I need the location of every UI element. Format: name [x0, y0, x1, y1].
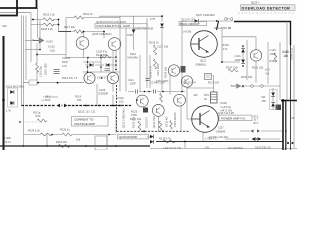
svg-text:0-103: 0-103 [46, 40, 53, 44]
svg-text:1.7k: 1.7k [6, 109, 12, 113]
svg-text:CN886(L): CN886(L) [195, 62, 206, 66]
svg-text:R126 1k: R126 1k [60, 128, 70, 132]
svg-text:NA140M: NA140M [128, 56, 138, 60]
svg-text:C+0.5 1k: C+0.5 1k [221, 105, 232, 109]
svg-text:R109 680: R109 680 [96, 53, 108, 57]
svg-text:D107 CN1140M: D107 CN1140M [196, 13, 214, 17]
svg-text:R113 47k 7.5: R113 47k 7.5 [62, 76, 78, 80]
svg-text:R103 2.2k: R103 2.2k [43, 13, 56, 17]
svg-text:R118 10k: R118 10k [56, 140, 68, 144]
svg-text:4.7k: 4.7k [62, 64, 68, 68]
svg-text:C125: C125 [283, 50, 290, 54]
svg-text:2SB546: 2SB546 [216, 130, 226, 134]
svg-text:180: 180 [77, 98, 82, 102]
svg-text:BIAS CIRCUIT: BIAS CIRCUIT [180, 22, 200, 26]
svg-text:0.75: 0.75 [150, 17, 156, 21]
svg-text:R125: R125 [131, 109, 138, 113]
svg-text:OVERLOAD DETECTOR: OVERLOAD DETECTOR [242, 7, 291, 11]
svg-text:C117: C117 [157, 44, 164, 48]
svg-text:2117: 2117 [218, 126, 224, 130]
svg-text:R124 2.2k: R124 2.2k [28, 129, 41, 133]
svg-text:L-18w 4.5: L-18w 4.5 [205, 136, 217, 140]
svg-text:7k7k: 7k7k [35, 114, 41, 118]
svg-text:DIFFERENTIAL AMP: DIFFERENTIAL AMP [97, 24, 131, 28]
svg-text:R135 1k: R135 1k [149, 41, 159, 45]
svg-text:18.3V DE CO: 18.3V DE CO [255, 146, 271, 150]
svg-text:Q115 MC2630: Q115 MC2630 [119, 135, 137, 139]
svg-text:CN103: CN103 [62, 56, 71, 60]
svg-text:17k8k: 17k8k [4, 136, 12, 140]
svg-text:L101 22µ: L101 22µ [39, 66, 43, 77]
svg-text:+10.7V (1.77): +10.7V (1.77) [163, 146, 181, 150]
svg-text:Q115, 117, 121: Q115, 117, 121 [78, 110, 96, 114]
svg-text:Q117,Ω,125: Q117,Ω,125 [218, 111, 234, 115]
svg-text:R132 4.7k: R132 4.7k [159, 136, 172, 140]
svg-text:10.7: 10.7 [254, 120, 259, 122]
svg-text:R107: R107 [62, 60, 69, 64]
svg-text:C121: C121 [235, 54, 242, 58]
svg-text:CURRENT TO: CURRENT TO [74, 118, 94, 122]
svg-text:D105 CN1140M: D105 CN1140M [135, 26, 153, 30]
svg-text:R143: R143 [223, 43, 230, 47]
svg-text:1Ω: 1Ω [204, 99, 207, 101]
svg-text:Q105 CN8150(L): Q105 CN8150(L) [92, 32, 112, 36]
svg-text:R117 12k: R117 12k [64, 25, 76, 29]
svg-text:100: 100 [119, 100, 124, 104]
svg-text:4.7k: 4.7k [223, 47, 229, 51]
svg-text:150: 150 [262, 99, 267, 103]
svg-text:R111a: R111a [33, 111, 41, 115]
svg-text:D112: D112 [130, 52, 137, 56]
svg-text:R101 1k: R101 1k [83, 12, 93, 16]
svg-text:R147 5.6k: R147 5.6k [226, 66, 239, 70]
svg-text:100P: 100P [235, 58, 241, 62]
svg-text:D101 MC140M: D101 MC140M [6, 85, 23, 89]
svg-text:R139 22k: R139 22k [164, 66, 168, 78]
svg-text:C119 AD150: C119 AD150 [173, 112, 177, 127]
svg-text:(+0.56): (+0.56) [183, 30, 191, 34]
svg-text:4700: 4700 [131, 113, 137, 117]
svg-text:+ 68.5: + 68.5 [43, 95, 51, 99]
svg-text:R5.5: R5.5 [254, 116, 260, 118]
svg-text:0105: 0105 [127, 33, 133, 37]
svg-text:2SC2275: 2SC2275 [145, 117, 149, 128]
svg-text:22k: 22k [164, 44, 169, 48]
svg-text:Q121 2SC: Q121 2SC [152, 116, 156, 128]
svg-text:R1,17: R1,17 [4, 140, 11, 144]
svg-text:C103 47µ: C103 47µ [96, 49, 108, 53]
svg-text:VOLTAGE AMP: VOLTAGE AMP [74, 122, 95, 126]
svg-text:Q115 CN8150(L): Q115 CN8150(L) [122, 108, 126, 128]
svg-text:C1 R40 2.2k: C1 R40 2.2k [150, 80, 165, 84]
svg-text:2W: 2W [194, 93, 198, 97]
svg-text:Q105,105,10%,10% 1W%: Q105,105,10%,10% 1W% [96, 20, 127, 24]
svg-text:Q111,R 127: Q111,R 127 [181, 17, 195, 21]
svg-text:C109: C109 [99, 88, 106, 92]
svg-text:C105 0.7: C105 0.7 [97, 76, 108, 80]
svg-text:0-125: 0-125 [48, 45, 55, 49]
svg-text:E110 18/5: E110 18/5 [44, 63, 48, 75]
svg-text:R153: R153 [270, 59, 277, 63]
svg-text:R151 150: R151 150 [252, 66, 264, 70]
svg-text:R141 4.7k: R141 4.7k [149, 65, 153, 78]
svg-text:100P: 100P [270, 52, 276, 56]
svg-text:120P: 120P [130, 82, 136, 86]
svg-text:W00-2V(R) BB: W00-2V(R) BB [214, 26, 231, 30]
svg-text:(24,3) 5,74: (24,3) 5,74 [183, 80, 196, 84]
svg-text:10µ: 10µ [284, 54, 289, 58]
svg-text:R131 4Ω: R131 4Ω [165, 117, 169, 127]
svg-text:C115 100P: C115 100P [156, 63, 160, 76]
svg-text:+B: +B [291, 116, 295, 120]
svg-text:C111: C111 [128, 78, 134, 82]
svg-text:A10: A10 [2, 24, 7, 28]
svg-text:+1.4: +1.4 [265, 68, 271, 72]
svg-text:Q123 +: Q123 + [251, 0, 260, 4]
svg-text:R129: R129 [221, 101, 228, 105]
svg-text:10Ω: 10Ω [50, 49, 55, 53]
svg-text:R171: R171 [204, 95, 210, 97]
svg-text:MA: MA [262, 95, 266, 99]
svg-text:10k: 10k [76, 137, 81, 141]
svg-text:R171 1W: R171 1W [208, 81, 219, 85]
svg-text:R149 0.22: R149 0.22 [290, 47, 294, 60]
svg-text:R105 2.2k: R105 2.2k [41, 27, 54, 31]
svg-text:R157 150: R157 150 [241, 75, 253, 79]
svg-text:R2.4: R2.4 [254, 123, 260, 125]
svg-text:0.6: 0.6 [266, 72, 270, 76]
svg-text:3V (15.5Ω): 3V (15.5Ω) [228, 146, 243, 150]
svg-text:R125 10k: R125 10k [132, 116, 136, 128]
svg-text:R119: R119 [75, 95, 82, 99]
svg-text:1W: 1W [205, 145, 209, 149]
svg-text:POWER AMP ¼½: POWER AMP ¼½ [221, 117, 246, 121]
svg-text:23C3050P: 23C3050P [96, 92, 109, 96]
svg-text:R121: R121 [118, 96, 125, 100]
svg-text:(+ 69.6): (+ 69.6) [42, 98, 51, 102]
svg-text:C123: C123 [270, 48, 277, 52]
svg-text:Q111: Q111 [200, 58, 207, 62]
